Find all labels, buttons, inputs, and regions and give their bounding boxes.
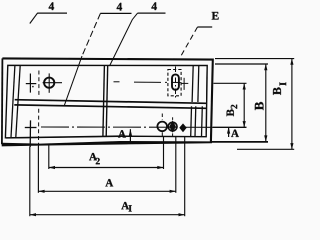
extension line right bottom B1 xyxy=(237,148,294,150)
extension column keyhole to A xyxy=(175,137,177,193)
dimension line B2 xyxy=(243,83,246,127)
extension line right centerline to B2 xyxy=(213,126,247,128)
lower-left cross vertical arm xyxy=(29,120,31,147)
dimension line B1 xyxy=(290,59,293,150)
hidden centerline column (dashed) lower cell xyxy=(38,109,40,147)
outer flange rectangle xyxy=(2,58,213,146)
extension column lower circle to A2 xyxy=(163,137,165,170)
speck near cross xyxy=(32,86,33,87)
left vertical rail line 1 xyxy=(11,65,15,137)
label B1 rotated xyxy=(273,82,286,95)
extension column to A xyxy=(37,146,39,193)
extension column from cross to A1 xyxy=(29,147,31,217)
leader 4 #3 underline xyxy=(138,12,166,14)
dimension line A xyxy=(38,190,176,193)
upper hole horizontal centerline xyxy=(43,82,62,84)
small cross right of obround horizontal xyxy=(181,82,189,84)
middle divider line 1 xyxy=(103,65,105,136)
mounting hole circle upper-left xyxy=(44,78,54,88)
lower hole vertical centerline xyxy=(161,114,163,120)
label A2 xyxy=(89,153,100,164)
lower hole vertical centerline below xyxy=(161,132,163,136)
leader E diagonal dashed xyxy=(181,27,198,57)
extension line right B top xyxy=(215,63,268,65)
leader 4 #3 diagonal xyxy=(110,13,138,66)
label A section right xyxy=(231,130,239,137)
label 4 #3 xyxy=(151,2,156,10)
hidden centerline column (dashed) upper cell xyxy=(38,71,40,97)
section arrow left xyxy=(129,129,132,142)
extension column diamond to A1 xyxy=(184,137,186,217)
leader E underline xyxy=(198,26,213,28)
right group upper line 2 xyxy=(197,66,200,103)
extension line right outer bottom to B xyxy=(211,141,268,143)
keyhole circle with vesica xyxy=(168,117,177,136)
obround horizontal centerline dash xyxy=(114,81,120,83)
label 4 #2 xyxy=(117,3,122,11)
dimension line A1 xyxy=(30,213,185,216)
small diamond hole xyxy=(179,123,186,132)
label B rotated xyxy=(255,102,264,110)
obround slot xyxy=(172,74,179,89)
lower-left cross horizontal arm xyxy=(25,127,37,129)
label B2 rotated xyxy=(227,105,238,117)
leader 4 #2 diagonal solid part xyxy=(64,56,82,106)
extension line right top B1 xyxy=(215,58,294,60)
extension line right B2 top xyxy=(214,82,247,84)
label A section left xyxy=(118,130,126,137)
inner frame rectangle xyxy=(5,65,207,138)
upper hole vertical centerline xyxy=(48,73,50,92)
leader 4 #1 diagonal xyxy=(30,13,38,24)
leader 4 #1 underline xyxy=(37,12,67,14)
extension column to A2 xyxy=(48,144,50,169)
dimension line A2 xyxy=(49,166,164,169)
right group lower line 2 xyxy=(194,106,197,137)
horizontal bar bottom edge xyxy=(14,105,206,108)
middle divider line 2 xyxy=(106,65,108,136)
label 4 #1 xyxy=(49,2,54,10)
lower hole circle xyxy=(157,122,167,132)
leader 4 #2 diagonal dashed part xyxy=(82,13,100,56)
label A xyxy=(105,179,113,186)
right group lower line 3 xyxy=(201,106,204,137)
lower horizontal centerline xyxy=(41,126,213,128)
dashed pocket rectangle upper-right xyxy=(168,70,181,96)
horizontal bar top edge xyxy=(15,100,207,104)
right group upper line 1 xyxy=(192,66,193,103)
label E xyxy=(212,12,219,20)
small cross right of obround vertical xyxy=(183,78,185,90)
obround vertical centerline xyxy=(175,67,177,99)
leader 4 #2 underline xyxy=(100,12,131,14)
upper-left cross vertical arm xyxy=(29,74,31,93)
dimension line B xyxy=(264,64,267,142)
left vertical rail line 2 xyxy=(16,65,20,137)
obround horizontal centerline xyxy=(134,81,181,83)
section arrow right xyxy=(227,127,230,137)
right group lower line 1 xyxy=(190,106,193,137)
upper-left cross horizontal arm xyxy=(26,83,37,85)
label A1 xyxy=(121,202,131,211)
